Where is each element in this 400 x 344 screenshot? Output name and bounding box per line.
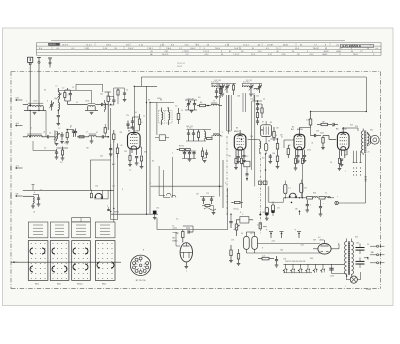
svg-text:100 V: 100 V — [128, 48, 134, 50]
trimmer C1 — [49, 101, 54, 111]
wire indicator loop — [157, 188, 228, 230]
svg-text:a: a — [26, 101, 27, 103]
svg-text:S12: S12 — [350, 125, 353, 127]
resistor R8 — [140, 156, 144, 169]
svg-text:4.7: 4.7 — [62, 88, 64, 90]
svg-text:R30: R30 — [313, 193, 316, 195]
resistor R24 with capacitor — [201, 148, 208, 163]
oscillator feedback loop wire — [128, 103, 157, 136]
wire detector gray link — [269, 186, 284, 202]
wave band switch legend box SK4 — [95, 222, 115, 238]
svg-text:.01: .01 — [311, 143, 313, 145]
cathode resistor R7 — [128, 156, 132, 167]
resistor R1 — [64, 90, 68, 101]
svg-text:AZ41: AZ41 — [320, 239, 325, 242]
svg-text:1.41 7.05: 1.41 7.05 — [214, 80, 221, 82]
resistor pill R34 — [271, 202, 279, 217]
IF can filter — [261, 121, 272, 140]
svg-text:8: 8 — [122, 189, 123, 191]
wire — [58, 84, 111, 130]
svg-text:L73.87: L73.87 — [183, 51, 190, 53]
svg-text:6.8: 6.8 — [198, 97, 200, 99]
svg-text:C60: C60 — [250, 136, 253, 138]
svg-text:47: 47 — [76, 102, 78, 104]
svg-text:0.3M: 0.3M — [306, 120, 310, 122]
svg-text:T.B.G: T.B.G — [353, 54, 358, 56]
svg-text:68k: 68k — [144, 152, 147, 154]
wire indicator feed — [153, 211, 158, 220]
svg-text:· · · ·: · · · · — [168, 186, 173, 188]
svg-text:3.3: 3.3 — [60, 162, 62, 164]
svg-text:C62: C62 — [316, 131, 319, 133]
pickup input resistor R28 — [90, 190, 92, 198]
svg-text:+250: +250 — [271, 241, 275, 243]
IF filter cluster — [186, 127, 212, 141]
resistor R25 — [232, 201, 244, 203]
screen resistor R6 — [138, 114, 142, 131]
coupling capacitor C13 — [311, 128, 322, 138]
svg-text:2 B 12: 2 B 12 — [177, 66, 182, 68]
volume control cluster — [200, 186, 219, 214]
svg-text:1: 1 — [67, 95, 68, 97]
svg-text:470k: 470k — [307, 150, 311, 152]
svg-text:C78: C78 — [283, 259, 286, 261]
wave band switch legend box SK3 — [72, 218, 91, 238]
capacitor C10 — [126, 121, 129, 130]
svg-text:T.B.G: T.B.G — [166, 48, 171, 50]
resistor R27 — [79, 136, 84, 138]
tone control network — [300, 174, 335, 216]
svg-text:6.8: 6.8 — [117, 90, 119, 92]
resistor R35 — [104, 124, 106, 137]
output terminal TA1 — [370, 245, 385, 247]
oscillator tuned circuit group 1 — [211, 82, 236, 97]
svg-text:L3 80: L3 80 — [85, 101, 89, 103]
output tube B5 EL84 — [336, 128, 349, 158]
capacitor C7 — [102, 135, 109, 138]
svg-text:7 4 4 2: 7 4 4 2 — [243, 44, 250, 46]
svg-text:L7: L7 — [86, 131, 88, 133]
svg-text:7: 7 — [345, 171, 346, 173]
svg-text:L5: L5 — [30, 128, 32, 130]
capacitor C3 — [95, 103, 108, 106]
svg-text:25: 25 — [368, 152, 370, 154]
svg-text:T.B.G: T.B.G — [106, 44, 111, 46]
svg-text:B6: B6 — [173, 238, 175, 240]
coupling box capacitor C21 — [141, 135, 169, 141]
mixer grid cluster — [55, 147, 68, 161]
svg-text:4: 4 — [276, 135, 277, 137]
svg-text:T.B.G: T.B.G — [215, 48, 220, 50]
svg-text:7698: 7698 — [366, 289, 372, 291]
earth terminal — [48, 58, 52, 68]
switch link dash line — [227, 136, 267, 234]
resistor R5 — [116, 144, 118, 159]
svg-text:T.B.G: T.B.G — [313, 48, 318, 50]
svg-text:C6: C6 — [44, 148, 46, 150]
svg-text:0.1: 0.1 — [257, 225, 259, 227]
diode load cluster — [266, 154, 280, 207]
svg-text:SK3-5: SK3-5 — [77, 284, 83, 286]
capacitor C12 trimmer pair — [185, 99, 197, 113]
resistor R2 — [107, 92, 111, 108]
svg-text:220: 220 — [124, 151, 127, 153]
capacitor pill C20 — [264, 140, 267, 154]
tube pin leads B5 — [353, 151, 362, 176]
svg-text:1.2: 1.2 — [58, 128, 60, 130]
resistor R3 — [65, 130, 69, 145]
filter capacitor C18 — [356, 257, 369, 268]
wave trap L8 — [23, 192, 41, 208]
detector resistor R31 — [284, 181, 291, 198]
junction cluster — [90, 190, 119, 213]
svg-text:S5: S5 — [152, 161, 154, 163]
coupling can C16 — [246, 232, 257, 253]
coil L5 — [23, 111, 47, 138]
resistor R11 — [270, 139, 278, 154]
oscillator coil L2 with core — [56, 88, 61, 126]
svg-text:50: 50 — [70, 126, 72, 128]
wire gray band vertical — [222, 160, 224, 208]
svg-text:5.6: 5.6 — [175, 106, 177, 108]
svg-text:1k: 1k — [143, 116, 145, 118]
volume control capacitor C14 — [236, 214, 253, 223]
svg-text:50: 50 — [367, 259, 369, 261]
svg-text:50k: 50k — [100, 156, 103, 158]
svg-text:2: 2 — [110, 99, 111, 101]
loudspeaker — [367, 132, 379, 146]
svg-text:1k: 1k — [181, 110, 183, 112]
capacitor C22 — [108, 97, 115, 106]
svg-text:110 125 145 200 220 245: 110 125 145 200 220 245 — [285, 261, 305, 263]
svg-text:8: 8 — [262, 248, 263, 250]
svg-text:EM80: EM80 — [173, 241, 178, 243]
resistor R17 — [237, 249, 241, 266]
svg-text:135: 135 — [344, 155, 347, 157]
svg-text:C82: C82 — [356, 243, 359, 245]
coil L4 — [105, 100, 106, 112]
svg-text:2: 2 — [186, 271, 187, 273]
cathode network B4 — [294, 156, 307, 197]
svg-text:S9: S9 — [270, 122, 272, 124]
svg-text:C55: C55 — [250, 99, 253, 101]
svg-text:47k: 47k — [277, 208, 280, 210]
svg-text:50: 50 — [241, 233, 243, 235]
svg-text:458 kc: 458 kc — [157, 98, 162, 100]
svg-text:6: 6 — [225, 183, 226, 185]
tube socket base diagram — [130, 255, 150, 282]
mains voltage selector contacts — [283, 261, 344, 273]
svg-text:4: 4 — [34, 192, 35, 194]
output terminal TA2 — [370, 251, 385, 256]
header type designation box — [341, 44, 374, 48]
aerial lead-in terminal y125.5 — [11, 123, 23, 128]
band indicator cluster — [258, 181, 267, 185]
svg-text:0.5: 0.5 — [176, 219, 178, 221]
svg-text:22k: 22k — [100, 94, 103, 96]
svg-text:50: 50 — [330, 162, 332, 164]
svg-text:L9: L9 — [213, 101, 215, 103]
drawing number — [366, 289, 372, 291]
svg-text:C30: C30 — [95, 186, 98, 188]
wire AVC line — [23, 160, 111, 190]
svg-text:L2: L2 — [56, 86, 58, 88]
svg-text:SK6: SK6 — [310, 258, 313, 260]
svg-text:PHILIPS: PHILIPS — [49, 44, 56, 46]
svg-text:7 4 4 2: 7 4 4 2 — [203, 51, 210, 53]
svg-text:C73: C73 — [231, 240, 234, 242]
output transformer T4 — [343, 128, 369, 155]
oscillator section coil L6 — [54, 131, 60, 146]
svg-text:C74: C74 — [252, 233, 255, 235]
mains transformer T5 — [339, 239, 353, 277]
svg-text:6.8: 6.8 — [262, 158, 264, 160]
svg-text:S3: S3 — [148, 100, 150, 102]
svg-text:50: 50 — [126, 90, 128, 92]
svg-text:.05: .05 — [120, 145, 122, 147]
svg-text:40/32: 40/32 — [283, 44, 289, 46]
wire AF bus upper — [246, 244, 320, 254]
svg-text:0.1: 0.1 — [227, 131, 229, 133]
svg-text:27k: 27k — [126, 115, 129, 117]
svg-text:16.6 TL: 16.6 TL — [162, 54, 170, 56]
svg-text:L8: L8 — [33, 212, 35, 214]
pilot lamp — [346, 272, 360, 283]
band switch bus verticals — [219, 93, 265, 186]
svg-text:EL84: EL84 — [342, 128, 346, 130]
svg-text:+225: +225 — [300, 245, 304, 247]
tuning indicator tube B6 EM80 — [173, 226, 194, 269]
aerial lead-in terminal y196 — [11, 193, 23, 198]
AVC divider stack — [182, 151, 196, 161]
antenna terminal A1 — [28, 57, 33, 105]
header title block table — [37, 40, 382, 55]
svg-text:C44: C44 — [216, 84, 219, 86]
svg-text:285: 285 — [295, 209, 298, 211]
svg-text:C70: C70 — [156, 208, 159, 210]
svg-text:6.3: 6.3 — [318, 237, 320, 239]
header row texts — [39, 44, 379, 56]
svg-text:S7: S7 — [262, 122, 264, 124]
svg-text:C2: C2 — [72, 87, 74, 89]
feedthrough capacitor — [329, 264, 346, 273]
svg-text:16.6 TL: 16.6 TL — [62, 44, 70, 46]
pickup loop symbol — [94, 190, 108, 199]
svg-text:C80: C80 — [280, 250, 283, 252]
svg-text:2.17 4.2: 2.17 4.2 — [246, 80, 252, 82]
svg-text:C32: C32 — [112, 186, 115, 188]
wire AVC highlighted line — [150, 186, 223, 188]
wire row link x33 — [32, 141, 57, 190]
svg-text:S20: S20 — [355, 237, 358, 239]
wave band switch legend box SK2 — [50, 222, 69, 238]
resistor R21 — [273, 127, 277, 141]
switch wafer SK4 contacts — [95, 241, 115, 286]
ratio detector cap cluster — [241, 161, 250, 181]
decoupling resistor R19 — [258, 256, 278, 267]
cathode network B3 — [234, 156, 246, 209]
switch shaft line — [11, 262, 121, 263]
svg-text:C52: C52 — [256, 96, 259, 98]
svg-text:40/32: 40/32 — [336, 51, 342, 53]
component value labels — [26, 80, 373, 287]
svg-text:5600: 5600 — [320, 133, 324, 135]
input coil L1 — [23, 103, 46, 114]
capacitor C5 — [60, 132, 64, 144]
capacitor C2 — [65, 88, 72, 105]
capacitor C23 — [74, 129, 77, 137]
svg-text:C40 C41: C40 C41 — [186, 126, 193, 128]
svg-text:6: 6 — [142, 122, 143, 124]
switch wafer SK3 contacts — [72, 241, 91, 286]
wire bottom-left bus — [111, 212, 118, 222]
svg-text:C66: C66 — [272, 153, 275, 155]
svg-text:C48: C48 — [237, 96, 240, 98]
svg-text:+: + — [323, 203, 324, 205]
svg-text:1k: 1k — [64, 143, 66, 145]
cathode resistor R15 — [338, 159, 344, 171]
svg-text:1.2k: 1.2k — [262, 256, 265, 258]
rectifier tube B7 EZ80 — [313, 239, 339, 254]
svg-text:TA6: TA6 — [371, 251, 374, 254]
grid filter stack — [114, 88, 127, 104]
svg-text:R8: R8 — [200, 102, 202, 104]
svg-text:0.1: 0.1 — [325, 193, 327, 195]
resistor R9 — [177, 108, 180, 124]
resistor R26 — [278, 145, 290, 158]
aerial lead-in terminal y168 — [11, 165, 23, 170]
scan page background — [3, 28, 394, 306]
svg-text:S4: S4 — [167, 108, 169, 110]
resistor R10 — [197, 104, 211, 106]
HT distribution arrows — [266, 209, 301, 239]
wire indicator to detector — [172, 226, 180, 247]
resistor R33 — [265, 207, 269, 220]
svg-text:C4: C4 — [54, 98, 56, 100]
svg-text:L73.87: L73.87 — [267, 44, 274, 46]
svg-text:5.6: 5.6 — [40, 190, 42, 192]
loop coupling symbol — [284, 193, 300, 203]
svg-text:16.6 TL: 16.6 TL — [234, 48, 242, 50]
switch wafer SK1 contacts — [28, 241, 48, 286]
svg-text:TO 5 1 4 7: TO 5 1 4 7 — [177, 63, 185, 65]
svg-text:2.2: 2.2 — [129, 170, 131, 172]
svg-text:4: 4 — [107, 206, 108, 208]
svg-text:S14: S14 — [355, 126, 358, 128]
svg-text:B7 23 4 96: B7 23 4 96 — [136, 280, 147, 282]
wire jog contacts — [159, 157, 176, 198]
oscillator tuned circuit group 2 — [242, 82, 262, 97]
indicator grid resistor R16 — [176, 228, 193, 243]
svg-text:0.5: 0.5 — [172, 226, 174, 228]
IF transformer T1 — [157, 100, 174, 126]
capacitor C11 — [135, 157, 139, 166]
wire bottom bus — [111, 213, 153, 215]
anode load resistor R12 — [299, 112, 311, 128]
svg-text:S8: S8 — [268, 141, 270, 143]
svg-text:47: 47 — [281, 137, 283, 139]
wave band switch legend box SK1 — [28, 222, 48, 238]
IF tube B3 EF89 — [228, 130, 246, 158]
coupling can C15 — [244, 232, 250, 253]
filter capacitor C17 — [356, 244, 365, 255]
wire bus x114 — [113, 143, 115, 212]
wire row link x46 — [44, 90, 78, 137]
frame annotation text — [177, 63, 185, 68]
antenna terminal A2 — [37, 58, 41, 110]
svg-text:2: 2 — [285, 193, 286, 195]
resistor R18 — [229, 245, 238, 263]
resistor pair R22 R23 — [177, 146, 191, 151]
svg-text:1 M log: 1 M log — [233, 209, 239, 211]
svg-text:C4: C4 — [49, 133, 51, 135]
wire bus x110 — [110, 108, 112, 212]
svg-text:804: 804 — [370, 130, 373, 132]
svg-text:B4: B4 — [292, 127, 294, 129]
svg-text:EBF80: EBF80 — [297, 129, 303, 131]
svg-text:0.1: 0.1 — [288, 188, 290, 190]
svg-text:B3: B3 — [236, 128, 238, 130]
svg-text:5: 5 — [360, 155, 361, 157]
svg-text:2.2: 2.2 — [246, 156, 248, 158]
svg-text:R5 R0: R5 R0 — [179, 146, 184, 148]
chassis boundary dash-dot frame — [11, 72, 381, 289]
capacitor C8 — [109, 144, 113, 156]
output terminal TA3 — [370, 262, 385, 264]
svg-text:C72: C72 — [206, 193, 209, 195]
padder capacitor C4 — [48, 135, 56, 138]
volume potentiometer — [229, 214, 239, 236]
coil L10 — [211, 134, 223, 137]
svg-text:B5: B5 — [332, 126, 334, 128]
capacitor C9 — [131, 117, 140, 129]
detector chain stack — [252, 101, 263, 125]
coil L9 — [211, 103, 222, 106]
wire HT rail to output — [222, 86, 366, 111]
svg-text:80: 80 — [44, 90, 46, 92]
svg-text:47: 47 — [96, 132, 98, 134]
bandfilter coil L3 — [68, 103, 99, 114]
detector resistor R32 — [300, 180, 308, 198]
svg-text:47k: 47k — [104, 128, 107, 130]
svg-text:50: 50 — [367, 244, 369, 246]
svg-text:b: b — [47, 101, 48, 103]
svg-text:7 4 4 2: 7 4 4 2 — [233, 54, 240, 56]
coil L7 — [77, 134, 102, 143]
capacitor C6 — [67, 127, 75, 137]
svg-text:L1 80: L1 80 — [33, 101, 37, 103]
aerial lead-in terminal y100 — [11, 97, 23, 102]
svg-text:40/32: 40/32 — [322, 54, 328, 56]
svg-text:EF85: EF85 — [234, 131, 239, 133]
svg-text:L: L — [345, 286, 346, 288]
IF transformer T3 winding — [248, 140, 266, 155]
wire bus x117 — [117, 158, 119, 220]
svg-text:L5: L5 — [43, 131, 45, 133]
speaker return wire — [335, 152, 370, 205]
svg-text:100 V: 100 V — [190, 48, 196, 50]
svg-text:7 4 4 2: 7 4 4 2 — [86, 44, 93, 46]
triode-hexode tube B1 ECH81 — [128, 128, 142, 155]
tube B4 EBF80 — [284, 128, 305, 159]
resistor R4 — [113, 130, 115, 143]
screen bypass cluster — [215, 86, 222, 99]
svg-text:0.1: 0.1 — [135, 112, 137, 114]
svg-text:7.38.1: 7.38.1 — [147, 48, 153, 50]
svg-text:180: 180 — [228, 156, 231, 158]
grid resistor R13 — [321, 136, 336, 150]
svg-text:40/32: 40/32 — [324, 51, 330, 53]
